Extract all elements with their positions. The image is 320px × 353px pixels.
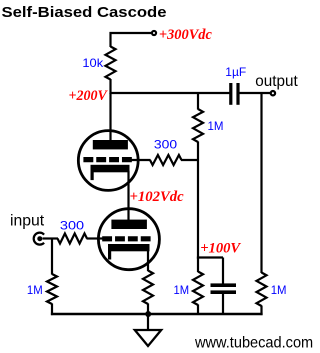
svg-text:1µF: 1µF [225, 65, 246, 79]
svg-text:10k: 10k [82, 56, 104, 70]
svg-text:input: input [10, 212, 45, 229]
svg-text:+300Vdc: +300Vdc [159, 27, 212, 43]
svg-text:1M: 1M [208, 119, 224, 133]
svg-text:300: 300 [154, 137, 178, 151]
svg-text:+100V: +100V [200, 240, 242, 256]
svg-text:output: output [255, 73, 298, 90]
svg-text:www.tubecad.com: www.tubecad.com [194, 334, 313, 351]
svg-text:+102Vdc: +102Vdc [130, 189, 185, 205]
svg-text:300: 300 [60, 219, 85, 233]
svg-text:1M: 1M [271, 283, 287, 297]
svg-text:1M: 1M [174, 283, 190, 297]
svg-text:1M: 1M [27, 283, 43, 297]
svg-text:+200V: +200V [69, 88, 109, 104]
svg-text:Self-Biased Cascode: Self-Biased Cascode [2, 4, 167, 21]
